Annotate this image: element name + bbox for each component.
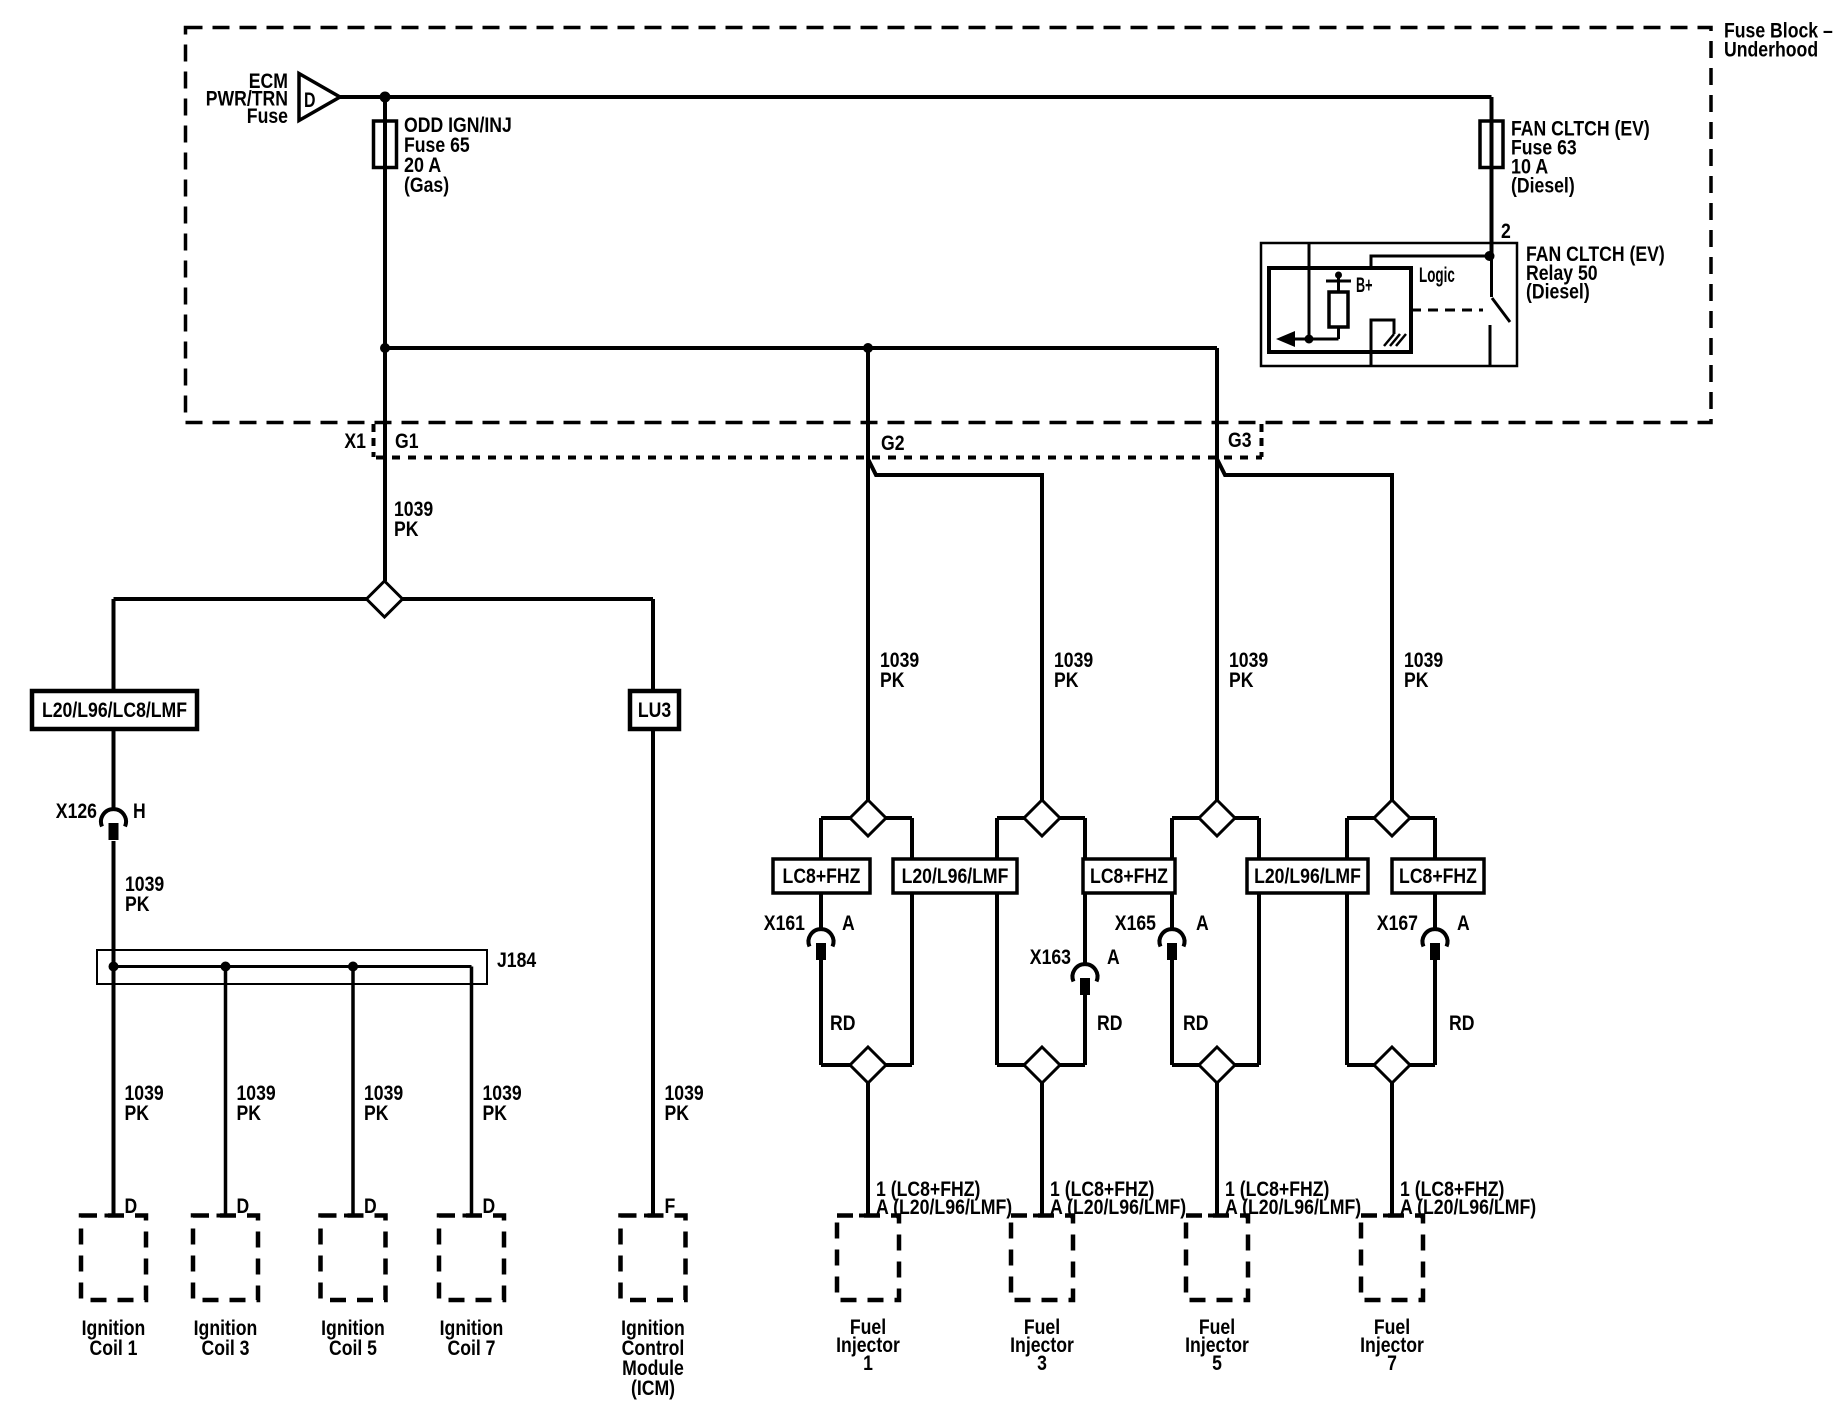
svg-text:(ICM): (ICM) [631, 1377, 675, 1400]
svg-text:Coil 3: Coil 3 [202, 1337, 250, 1360]
svg-text:X165: X165 [1115, 912, 1156, 935]
svg-text:PK: PK [880, 669, 905, 692]
svg-text:A: A [1107, 946, 1120, 969]
svg-text:G3: G3 [1228, 429, 1252, 452]
svg-text:A: A [1196, 912, 1209, 935]
svg-text:7: 7 [1387, 1352, 1397, 1375]
svg-text:X126: X126 [56, 800, 97, 823]
svg-text:PK: PK [237, 1102, 262, 1125]
svg-text:X167: X167 [1377, 912, 1418, 935]
svg-text:X1: X1 [344, 430, 366, 453]
svg-text:L20/L96/LMF: L20/L96/LMF [902, 865, 1009, 888]
svg-text:Coil 7: Coil 7 [448, 1337, 496, 1360]
svg-text:A (L20/L96/LMF): A (L20/L96/LMF) [1225, 1196, 1361, 1219]
svg-text:PK: PK [364, 1102, 389, 1125]
svg-text:H: H [133, 800, 146, 823]
svg-text:PK: PK [1404, 669, 1429, 692]
svg-text:G2: G2 [881, 432, 905, 455]
svg-text:1: 1 [863, 1352, 873, 1375]
svg-text:A (L20/L96/LMF): A (L20/L96/LMF) [876, 1196, 1012, 1219]
svg-text:RD: RD [1183, 1012, 1209, 1035]
svg-text:L20/L96/LMF: L20/L96/LMF [1254, 865, 1361, 888]
svg-text:B+: B+ [1356, 274, 1373, 297]
svg-text:PK: PK [665, 1102, 690, 1125]
svg-text:A (L20/L96/LMF): A (L20/L96/LMF) [1050, 1196, 1186, 1219]
svg-text:PK: PK [1229, 669, 1254, 692]
svg-text:PK: PK [394, 518, 419, 541]
svg-text:G1: G1 [395, 430, 419, 453]
svg-text:A (L20/L96/LMF): A (L20/L96/LMF) [1400, 1196, 1536, 1219]
svg-text:PK: PK [1054, 669, 1079, 692]
svg-text:(Gas): (Gas) [404, 174, 449, 197]
svg-text:LC8+FHZ: LC8+FHZ [1090, 865, 1168, 888]
svg-text:5: 5 [1212, 1352, 1222, 1375]
svg-text:X161: X161 [764, 912, 805, 935]
svg-text:(Diesel): (Diesel) [1511, 175, 1575, 198]
svg-text:2: 2 [1501, 220, 1511, 243]
svg-text:LC8+FHZ: LC8+FHZ [1399, 865, 1477, 888]
svg-text:L20/L96/LC8/LMF: L20/L96/LC8/LMF [42, 699, 187, 722]
svg-text:(Diesel): (Diesel) [1526, 281, 1590, 304]
svg-text:PK: PK [483, 1102, 508, 1125]
svg-text:Coil 1: Coil 1 [90, 1337, 138, 1360]
svg-text:Underhood: Underhood [1724, 39, 1818, 62]
svg-text:D: D [237, 1195, 250, 1218]
svg-text:PK: PK [125, 1102, 150, 1125]
svg-text:LC8+FHZ: LC8+FHZ [783, 865, 861, 888]
svg-text:D: D [364, 1195, 377, 1218]
svg-text:J184: J184 [497, 949, 536, 972]
svg-text:F: F [665, 1195, 676, 1218]
svg-text:3: 3 [1037, 1352, 1047, 1375]
svg-text:X163: X163 [1030, 946, 1071, 969]
svg-text:RD: RD [1097, 1012, 1123, 1035]
svg-text:RD: RD [830, 1012, 856, 1035]
svg-text:LU3: LU3 [638, 699, 671, 722]
svg-text:PK: PK [125, 893, 150, 916]
svg-text:RD: RD [1449, 1012, 1475, 1035]
svg-text:D: D [304, 89, 316, 112]
svg-text:Fuse: Fuse [247, 105, 288, 128]
svg-text:D: D [483, 1195, 496, 1218]
svg-text:A: A [842, 912, 855, 935]
svg-text:Logic: Logic [1419, 264, 1455, 287]
svg-text:D: D [125, 1195, 138, 1218]
svg-text:A: A [1457, 912, 1470, 935]
svg-text:Coil 5: Coil 5 [329, 1337, 377, 1360]
